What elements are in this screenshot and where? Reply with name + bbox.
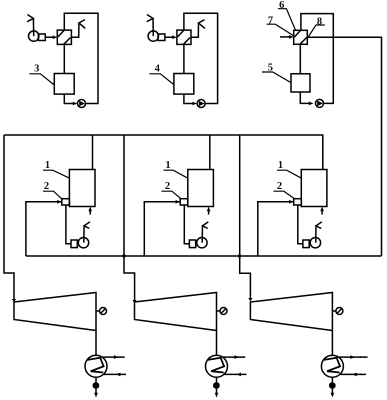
svg-text:1: 1 [165, 160, 170, 171]
svg-text:6: 6 [279, 0, 284, 11]
wire box5 to pump [300, 92, 309, 103]
svg-text:2: 2 [165, 181, 170, 192]
junction dot [238, 254, 241, 257]
svg-text:1: 1 [278, 160, 283, 171]
feedwater return line [26, 255, 382, 257]
steam line to turbine 3 [240, 135, 251, 299]
label 3 leader [29, 74, 54, 85]
turbine group 3 [250, 293, 362, 398]
wire header to box 1A top [92, 135, 94, 170]
svg-text:8: 8 [317, 17, 322, 28]
steam header [4, 135, 323, 170]
solid arrowhead into HX3 [289, 35, 294, 39]
heat exchanger box 7 [294, 30, 308, 44]
label 1c leader [277, 170, 302, 178]
svg-text:3: 3 [34, 64, 39, 75]
heater unit 1 [27, 13, 98, 107]
svg-text:1: 1 [45, 160, 50, 171]
label 4 leader [149, 74, 174, 85]
steam generator subunit B [144, 170, 213, 257]
steam line to turbine 2 [124, 135, 135, 301]
svg-text:7: 7 [268, 16, 273, 27]
svg-text:2: 2 [44, 181, 49, 192]
label 8 leader [308, 25, 325, 37]
junction dot [122, 254, 125, 257]
label 5 leader [262, 72, 291, 83]
svg-text:5: 5 [268, 62, 273, 73]
steam line to turbine 1 [4, 135, 14, 300]
heater unit 3 (top right) [280, 14, 382, 256]
turbine group 2 [135, 293, 247, 398]
steam generator subunit A [26, 170, 95, 257]
label 6 leader [278, 9, 296, 31]
label 2c leader [273, 191, 294, 199]
svg-text:4: 4 [155, 64, 161, 75]
svg-text:2: 2 [277, 181, 282, 192]
inlet wire [280, 36, 289, 38]
label 2b leader [161, 191, 181, 199]
boiler box 5 [291, 74, 310, 92]
cooling out extension C3 [360, 356, 368, 358]
label 2a leader [43, 191, 62, 199]
turbine group 1 [14, 293, 126, 398]
label 1a leader [43, 170, 70, 178]
steam generator subunit C [258, 170, 327, 257]
label 1b leader [164, 170, 189, 178]
wire HX3 to box 5 [299, 44, 301, 74]
outlet wire to right riser [307, 37, 381, 256]
heater unit 2 [147, 13, 218, 107]
pump circle [316, 99, 324, 107]
label 7 leader [267, 24, 294, 36]
cooling in extension C3 [361, 373, 366, 375]
wire header to box 1B top [209, 135, 211, 170]
loop over HX3 [301, 14, 333, 104]
